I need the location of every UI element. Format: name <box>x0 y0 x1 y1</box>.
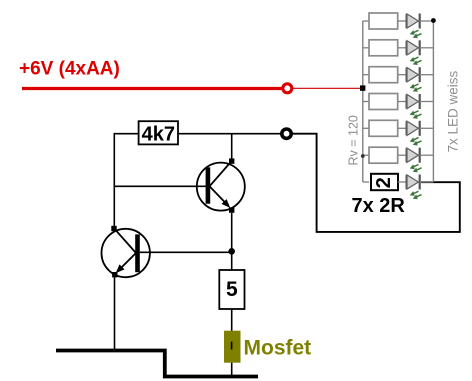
svg-text:5: 5 <box>226 278 238 301</box>
svg-text:7x LED weiss: 7x LED weiss <box>445 70 460 152</box>
svg-text:7x 2R: 7x 2R <box>352 195 406 217</box>
svg-text:Mosfet: Mosfet <box>244 337 312 360</box>
svg-text:+6V (4xAA): +6V (4xAA) <box>19 59 120 80</box>
svg-text:4k7: 4k7 <box>142 124 175 146</box>
svg-text:Rv = 120: Rv = 120 <box>347 115 361 165</box>
svg-text:2: 2 <box>373 177 395 188</box>
